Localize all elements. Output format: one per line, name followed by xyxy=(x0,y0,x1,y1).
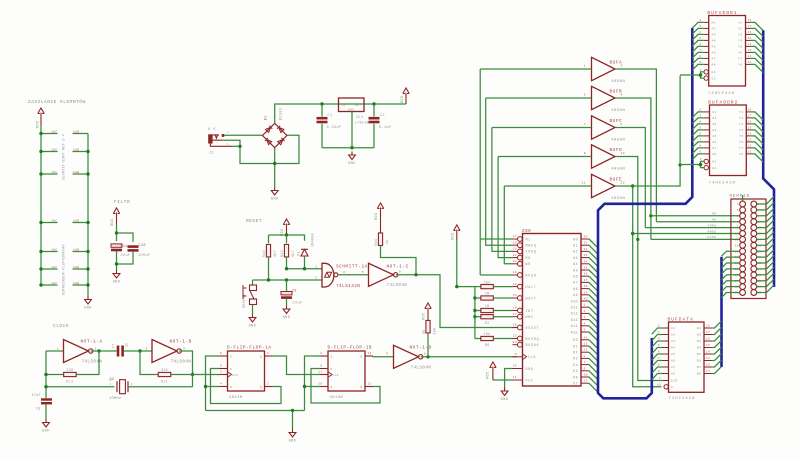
BUFDATA pin DIR xyxy=(663,380,669,382)
svg-text:Y2: Y2 xyxy=(738,28,743,31)
BUFADDR2 pin Y7 xyxy=(746,147,750,149)
svg-text:6: 6 xyxy=(699,43,701,46)
svg-text:4050N: 4050N xyxy=(611,109,625,113)
svg-text:D7: D7 xyxy=(573,382,578,386)
svg-text:1n: 1n xyxy=(125,342,129,347)
wire BUFDATA B6 to bus xyxy=(713,354,722,361)
svg-text:5: 5 xyxy=(699,37,701,40)
wire bus to BUFADDR1 A5 xyxy=(692,46,703,52)
cpu pin M1 xyxy=(518,237,523,242)
BUFADDR1 pin A5 xyxy=(704,45,709,47)
wire RFSH line to MEMPIN xyxy=(651,238,740,240)
svg-text:17: 17 xyxy=(748,114,752,117)
svg-text:11: 11 xyxy=(318,371,322,374)
svg-text:1: 1 xyxy=(109,383,111,386)
svg-text:D1: D1 xyxy=(573,344,578,348)
ground GND (Z80) xyxy=(501,388,508,396)
svg-text:14: 14 xyxy=(706,351,710,354)
svg-text:1: 1 xyxy=(659,377,661,380)
svg-text:20: 20 xyxy=(513,248,517,251)
BUFDATA pin B3 xyxy=(704,340,713,342)
cpu pin D2 xyxy=(581,351,589,353)
svg-text:74LS04N: 74LS04N xyxy=(171,361,192,365)
svg-text:3: 3 xyxy=(220,371,222,374)
wire BUFADDR2 Y3 to bus xyxy=(751,124,764,132)
wire BUFE row to BUFADDR enables xyxy=(633,75,680,186)
power symbol VCC (Z80) xyxy=(490,362,496,380)
svg-text:A7: A7 xyxy=(712,147,717,150)
svg-text:GND: GND xyxy=(113,281,121,285)
svg-text:C9: C9 xyxy=(292,290,297,294)
BUFADDR1 pin A6 xyxy=(704,51,709,53)
svg-text:74LS04N: 74LS04N xyxy=(411,367,432,371)
wire IORQ line to MEMPIN xyxy=(645,227,739,229)
svg-text:1&B: 1&B xyxy=(73,282,79,285)
svg-text:GND: GND xyxy=(501,398,509,402)
svg-text:1M: 1M xyxy=(485,304,490,308)
wire BUFADDR2 Y1 to bus xyxy=(751,112,764,120)
voltage regulator IC1 L78L05 xyxy=(339,98,365,112)
svg-text:2: 2 xyxy=(315,277,317,280)
svg-text:18: 18 xyxy=(748,19,752,22)
svg-text:WR: WR xyxy=(712,213,717,216)
svg-text:RESET: RESET xyxy=(526,326,540,330)
svg-text:A2: A2 xyxy=(712,28,717,31)
svg-text:10: 10 xyxy=(318,383,322,386)
svg-text:40: 40 xyxy=(584,298,588,301)
wire A15 to bus xyxy=(589,332,598,341)
BUFADDR1 pin A3 xyxy=(704,33,709,35)
ground GND (C8) xyxy=(43,419,50,427)
ground GND (filtr) xyxy=(113,270,120,278)
BUFADDR2 pin A4 xyxy=(704,129,710,131)
svg-text:C11: C11 xyxy=(121,245,128,249)
wire bus to BUFADDR1 A8 xyxy=(692,64,703,70)
svg-text:10k: 10k xyxy=(484,280,491,284)
svg-text:IORQ: IORQ xyxy=(707,224,716,227)
svg-text:18: 18 xyxy=(513,283,517,286)
svg-text:C7: C7 xyxy=(112,343,116,348)
svg-text:12: 12 xyxy=(368,383,372,386)
svg-text:11: 11 xyxy=(582,182,586,185)
svg-text:1&C: 1&C xyxy=(51,131,57,134)
ground GND (flip-flops) xyxy=(289,429,296,437)
cpu pin MREQ xyxy=(518,243,523,248)
svg-text:32: 32 xyxy=(584,248,588,251)
wire BUFADDR1 Y4 to bus xyxy=(751,40,764,48)
svg-text:26: 26 xyxy=(513,324,517,327)
BUFDATA pin A4 xyxy=(662,347,669,349)
svg-text:8: 8 xyxy=(699,55,701,58)
cpu pin D5 xyxy=(581,370,589,372)
svg-text:12: 12 xyxy=(621,182,625,185)
svg-text:A8: A8 xyxy=(712,64,717,67)
BUFDATA pin A6 xyxy=(662,360,669,362)
wire A4 to bus xyxy=(589,264,598,273)
inverter NOT-1-B 74LS04N xyxy=(152,340,177,363)
svg-text:330: 330 xyxy=(161,368,168,372)
svg-text:C1: C1 xyxy=(328,114,333,118)
wire FF1B S and R to ground rail xyxy=(305,356,321,411)
svg-text:23: 23 xyxy=(513,341,517,344)
BUFDATA pin B7 xyxy=(704,366,713,368)
svg-text:3: 3 xyxy=(699,114,701,117)
svg-text:1: 1 xyxy=(227,131,230,133)
wire WR line to MEMPIN xyxy=(651,215,740,217)
wire bus to BUFADDR2 A7 xyxy=(692,148,703,154)
wire MEMPIN top stub xyxy=(742,195,744,201)
wire bus to BUFADDR2 A6 xyxy=(692,142,703,148)
svg-text:5: 5 xyxy=(737,215,739,218)
svg-text:A1: A1 xyxy=(712,22,717,25)
svg-text:1&B: 1&B xyxy=(73,131,79,134)
svg-text:9: 9 xyxy=(737,227,739,230)
capacitor C11 xyxy=(111,244,122,247)
BUFADDR2 pin A6 xyxy=(704,141,710,143)
buffer BUFA 4050N xyxy=(592,57,616,81)
svg-text:13: 13 xyxy=(706,357,710,360)
wire A6 to bus xyxy=(589,276,598,285)
BUFDATA pin B8 xyxy=(704,373,713,375)
svg-text:13: 13 xyxy=(368,352,372,355)
cpu pin WAIT xyxy=(518,296,523,301)
svg-text:3: 3 xyxy=(737,209,739,212)
wire MEMPIN right row 5 to bus xyxy=(757,220,774,228)
wire C11/C10 bottoms join xyxy=(117,252,134,264)
BUFADDR2 pin Y1 xyxy=(746,111,750,113)
svg-text:4k7: 4k7 xyxy=(273,250,277,257)
cpu pin RESET xyxy=(518,325,523,330)
svg-text:11: 11 xyxy=(748,150,752,153)
svg-text:Q̅: Q̅ xyxy=(260,385,262,389)
resistor R14 xyxy=(266,244,270,257)
wire BUFADDR2 Y5 to bus xyxy=(751,136,764,144)
resistor pullup row y=298 xyxy=(475,297,481,299)
cpu pin IORQ xyxy=(518,249,523,254)
svg-text:A4: A4 xyxy=(671,347,676,350)
svg-text:31: 31 xyxy=(584,242,588,245)
wire D7 to bus xyxy=(589,383,598,392)
wire BUFDATA B7 to bus xyxy=(713,360,722,367)
MEMPIN row 5 xyxy=(740,225,746,231)
wire J1 ring to bridge AC2 (loop below) xyxy=(223,135,299,163)
svg-text:29: 29 xyxy=(513,365,517,368)
cpu pin RFSH xyxy=(518,273,523,278)
BUFADDR2 pin A5 xyxy=(704,135,710,137)
svg-text:7: 7 xyxy=(584,361,586,364)
wire A11 to bus xyxy=(589,307,598,316)
svg-text:13: 13 xyxy=(748,49,752,52)
wire BUFADDR2 Y7 to bus xyxy=(751,148,764,156)
svg-text:NOT-1-B: NOT-1-B xyxy=(170,340,192,345)
svg-text:11: 11 xyxy=(706,370,710,373)
svg-text:GND: GND xyxy=(348,162,356,166)
svg-text:A1: A1 xyxy=(573,244,578,248)
wire A3 to bus xyxy=(589,258,598,267)
svg-text:12: 12 xyxy=(748,55,752,58)
BUFDATA pin A3 xyxy=(662,340,669,342)
resistor pullup row y=310.5 xyxy=(475,310,481,312)
svg-text:39: 39 xyxy=(584,291,588,294)
svg-text:A1: A1 xyxy=(712,111,717,114)
buffer BUFB 4050N xyxy=(592,86,616,110)
wire MEMPIN right row 14 to bus xyxy=(757,273,774,281)
BUFADDR1 pin A4 xyxy=(704,39,709,41)
wire input to BUFB xyxy=(486,97,592,99)
svg-text:A12: A12 xyxy=(571,312,578,316)
svg-text:RESET: RESET xyxy=(246,218,262,224)
svg-text:Y2: Y2 xyxy=(739,117,744,120)
svg-text:11: 11 xyxy=(513,376,517,379)
wire A2 to bus xyxy=(589,251,598,260)
svg-text:A3: A3 xyxy=(671,340,676,343)
svg-text:15: 15 xyxy=(735,244,739,247)
svg-text:1k: 1k xyxy=(385,239,389,244)
cpu pin BUSAK xyxy=(518,342,523,347)
svg-text:1: 1 xyxy=(700,158,702,161)
wire FF1B Qbar feedback to D xyxy=(311,369,380,404)
wire D4 to bus xyxy=(589,365,598,374)
wire BUFADDR1 Y8 to bus xyxy=(751,64,764,72)
svg-text:330: 330 xyxy=(66,368,73,372)
svg-text:A6: A6 xyxy=(671,360,676,363)
svg-text:4013N: 4013N xyxy=(229,396,243,400)
svg-text:B6: B6 xyxy=(697,360,702,363)
svg-text:9: 9 xyxy=(699,150,701,153)
BUFADDR1 pin Y6 xyxy=(746,51,751,53)
svg-text:10: 10 xyxy=(621,152,625,155)
svg-text:OUT: OUT xyxy=(355,104,362,107)
svg-text:NMI: NMI xyxy=(526,315,534,319)
cpu pin A4 xyxy=(581,263,589,265)
svg-text:8: 8 xyxy=(320,352,322,355)
svg-text:17: 17 xyxy=(748,25,752,28)
svg-text:7: 7 xyxy=(699,138,701,141)
svg-text:18: 18 xyxy=(706,325,710,328)
svg-text:5: 5 xyxy=(584,94,586,97)
svg-text:Y5: Y5 xyxy=(738,46,743,49)
cpu pin A1 xyxy=(581,244,589,246)
BUFDATA pin A7 xyxy=(662,366,669,368)
cpu pin A15 xyxy=(581,331,589,333)
wire MREQ to BUFB net xyxy=(486,98,513,245)
resistor R11 feedback xyxy=(140,351,158,375)
svg-text:4: 4 xyxy=(584,322,586,325)
svg-text:28: 28 xyxy=(513,271,517,274)
svg-text:A14: A14 xyxy=(571,324,578,328)
wire IC1 GND pin down xyxy=(351,112,353,148)
wire bus to BUFADDR2 A2 xyxy=(692,118,703,124)
wire MEMPIN left row 14 to data bus xyxy=(722,281,740,286)
svg-text:21: 21 xyxy=(513,254,517,257)
wire BUFDATA B2 to bus xyxy=(713,328,722,335)
svg-text:R: R xyxy=(331,386,333,389)
BUFADDR2 pin Y8 xyxy=(746,153,750,155)
svg-text:2: 2 xyxy=(699,19,701,22)
power symbol VCC (ladder) xyxy=(38,108,44,126)
wire RFSH row xyxy=(480,274,512,276)
cpu pin A14 xyxy=(581,325,589,327)
svg-text:12: 12 xyxy=(584,349,588,352)
svg-text:WAIT: WAIT xyxy=(526,296,537,300)
svg-text:B7: B7 xyxy=(697,366,702,369)
svg-text:14: 14 xyxy=(748,43,752,46)
bus right output bus (BUFADDR side) xyxy=(763,30,774,287)
svg-text:D5: D5 xyxy=(573,369,578,373)
wire A9 to bus xyxy=(589,295,598,304)
svg-text:1M: 1M xyxy=(485,292,490,296)
svg-text:19: 19 xyxy=(657,383,661,386)
svg-text:11: 11 xyxy=(735,233,739,236)
cpu pin A5 xyxy=(581,269,589,271)
svg-text:0.1uF: 0.1uF xyxy=(379,126,391,130)
svg-text:A7: A7 xyxy=(671,366,676,369)
svg-text:9: 9 xyxy=(386,353,388,356)
svg-text:A4: A4 xyxy=(573,262,578,266)
cpu pin A11 xyxy=(581,306,589,308)
wire input to BUFD xyxy=(498,156,591,158)
wire MREQ line to MEMPIN xyxy=(633,233,740,235)
cpu pin GND xyxy=(513,368,523,370)
svg-text:22uF: 22uF xyxy=(293,302,303,306)
wire bus to BUFADDR1 A4 xyxy=(692,40,703,46)
svg-text:4: 4 xyxy=(183,347,185,350)
svg-text:1N4004: 1N4004 xyxy=(311,233,315,247)
BUFADDR2 pin Y5 xyxy=(746,135,750,137)
wire MEMPIN right row 6 to bus xyxy=(757,226,774,234)
svg-text:GND: GND xyxy=(249,325,257,329)
BUFADDR1 pin A1 xyxy=(704,21,709,23)
svg-text:HALT: HALT xyxy=(526,285,537,289)
schmitt NAND gate SCHMITT-1A 74LS132N xyxy=(322,263,334,287)
resistor R13 xyxy=(284,244,288,257)
svg-text:R15: R15 xyxy=(374,239,378,246)
wire bus to BUFDATA A5 xyxy=(652,354,662,360)
svg-text:SCHMITT-1A: SCHMITT-1A xyxy=(336,265,368,270)
svg-text:2: 2 xyxy=(227,143,230,145)
wire A0 to bus xyxy=(589,239,598,248)
svg-text:6: 6 xyxy=(658,351,660,354)
BUFDATA pin B4 xyxy=(704,347,713,349)
cpu pin A6 xyxy=(581,275,589,277)
svg-text:2: 2 xyxy=(621,65,623,68)
svg-text:10: 10 xyxy=(584,374,588,377)
svg-text:4: 4 xyxy=(621,94,623,97)
svg-text:BUSAK: BUSAK xyxy=(526,343,540,347)
wire WR to BUFE net xyxy=(504,186,512,264)
resistor pullup row y=286.6 xyxy=(475,286,481,288)
BUFADDR2 pin Y3 xyxy=(746,123,750,125)
svg-text:CLK: CLK xyxy=(528,355,536,359)
wire bus to BUFDATA A1 xyxy=(652,328,662,334)
svg-text:2: 2 xyxy=(267,383,269,386)
wire MEMPIN right row 10 to bus xyxy=(757,250,774,258)
svg-text:13: 13 xyxy=(584,380,588,383)
svg-text:VCC: VCC xyxy=(37,120,41,128)
svg-text:9: 9 xyxy=(584,367,586,370)
cpu pin A12 xyxy=(581,312,589,314)
svg-text:VCC: VCC xyxy=(452,232,456,240)
svg-text:3: 3 xyxy=(699,25,701,28)
BUFADDR2 pin A1 xyxy=(704,111,710,113)
svg-text:1&B: 1&B xyxy=(73,171,79,174)
svg-text:4050N: 4050N xyxy=(611,80,625,84)
svg-text:A5: A5 xyxy=(573,268,578,272)
svg-text:GND: GND xyxy=(289,440,297,444)
cpu pin D6 xyxy=(581,376,589,378)
svg-text:D-FLIP-FLOP-1A: D-FLIP-FLOP-1A xyxy=(227,346,272,351)
svg-text:16: 16 xyxy=(513,307,517,310)
wire branch to C10 xyxy=(117,233,134,242)
wire ladder rung 2 xyxy=(41,151,58,153)
MEMPIN row 9 xyxy=(740,248,746,254)
wire ladder rung 3 xyxy=(41,173,58,175)
svg-text:1&B: 1&B xyxy=(73,149,79,152)
svg-text:16: 16 xyxy=(706,338,710,341)
wire MEMPIN left row 11 to data bus xyxy=(722,263,740,268)
BUFADDR1 pin Y7 xyxy=(746,57,751,59)
wire BUFADDR2 Y6 to bus xyxy=(751,142,764,150)
capacitor C7 xyxy=(117,346,120,357)
svg-text:47pF: 47pF xyxy=(32,393,41,397)
svg-text:MEMPIN: MEMPIN xyxy=(730,195,750,199)
svg-text:1&C: 1&C xyxy=(51,249,57,252)
svg-text:GND: GND xyxy=(526,367,534,371)
svg-text:17: 17 xyxy=(513,313,517,316)
svg-text:R3: R3 xyxy=(485,321,490,325)
cpu pin D0 xyxy=(581,339,589,341)
wire D5 to bus xyxy=(589,371,598,380)
wire BUFADDR2 Y2 to bus xyxy=(751,118,764,126)
svg-text:1&B: 1&B xyxy=(73,220,79,223)
BUFDATA pin A2 xyxy=(662,334,669,336)
svg-text:Y5: Y5 xyxy=(739,135,744,138)
svg-text:G1: G1 xyxy=(712,161,717,164)
BUFADDR1 pin Y5 xyxy=(746,45,751,47)
BUFADDR1 pin Y1 xyxy=(746,21,751,23)
svg-text:G2: G2 xyxy=(712,167,717,170)
svg-text:5: 5 xyxy=(658,344,660,347)
svg-text:1&C: 1&C xyxy=(51,171,57,174)
BUFADDR2 pin A7 xyxy=(704,147,710,149)
svg-text:15: 15 xyxy=(584,343,588,346)
wire MEMPIN right row 13 to bus xyxy=(757,267,774,275)
svg-text:GND: GND xyxy=(42,430,50,434)
ground GND (reset switch) xyxy=(249,314,256,322)
wire R11 row to FF1A CLK xyxy=(193,374,220,376)
cpu pin BUSRQ xyxy=(518,336,523,341)
svg-text:4: 4 xyxy=(699,120,701,123)
svg-text:4k7: 4k7 xyxy=(291,250,295,257)
svg-text:A5: A5 xyxy=(712,135,717,138)
power symbol VCC (reset) xyxy=(283,219,289,235)
cpu pin VCC xyxy=(513,379,523,381)
BUFDATA pin A5 xyxy=(662,353,669,355)
svg-text:D2: D2 xyxy=(573,351,578,355)
svg-text:34: 34 xyxy=(584,260,588,263)
wire M1 to BUFA net xyxy=(479,69,481,275)
power symbol VCC (filtr) xyxy=(113,208,119,224)
svg-text:A7: A7 xyxy=(573,281,578,285)
svg-text:SCHMITT-BUFF NOT-1-P: SCHMITT-BUFF NOT-1-P xyxy=(62,134,66,180)
wire BUFADDR1 Y2 to bus xyxy=(751,28,764,36)
inverter NOT-1-C 74LS04N xyxy=(369,263,394,286)
wire D3 to bus xyxy=(589,358,598,367)
wire BUFD output to DIR net xyxy=(616,157,664,381)
svg-text:24: 24 xyxy=(513,294,517,297)
cpu pin WR xyxy=(518,261,523,266)
wire bus to BUFDATA A3 xyxy=(652,341,662,347)
